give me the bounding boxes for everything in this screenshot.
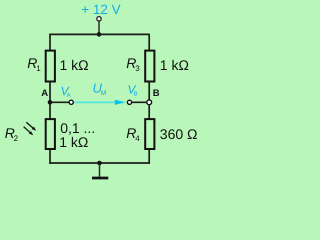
light arrow 2 head [29,131,34,135]
resistor R4 [145,119,154,149]
wire top rail [49,33,150,35]
light arrow 2 line [24,127,31,133]
wire bottom rail [49,162,150,164]
svg-text:UM: UM [93,81,107,97]
junction top node [97,32,102,37]
wire left upper [49,34,51,50]
svg-text:R1: R1 [27,55,41,73]
svg-text:1 kΩ: 1 kΩ [59,134,88,150]
svg-text:R4: R4 [126,125,140,143]
svg-text:A: A [41,88,48,99]
wire left middle [49,81,51,119]
terminal VB [127,100,131,104]
node B ring terminal [147,100,152,105]
light arrow 1 head [32,127,37,131]
svg-text:1 kΩ: 1 kΩ [60,57,89,73]
svg-text:B: B [153,88,160,99]
measurement arrow UM line [75,101,117,103]
wire node B stub [132,101,150,103]
svg-text:VB: VB [128,83,138,98]
ground stem [99,163,101,177]
wire node A stub [50,101,69,103]
light arrow 1 line [26,122,33,128]
resistor R3 [145,51,154,82]
svg-text:360 Ω: 360 Ω [160,126,198,142]
svg-text:1 kΩ: 1 kΩ [160,57,189,73]
node A junction dot [48,100,53,105]
svg-text:+ 12 V: + 12 V [81,2,120,17]
supply terminal [97,17,101,21]
svg-text:R3: R3 [126,55,140,73]
wire right upper [148,34,150,50]
wire right middle [148,81,150,119]
measurement arrow UM head [115,100,126,105]
resistor R1 [46,51,55,82]
wire left lower [49,149,51,164]
terminal VA [69,100,73,104]
junction ground node [97,161,102,166]
ground bar [92,177,108,180]
wire supply stub [98,21,100,34]
svg-text:VA: VA [61,84,71,99]
svg-text:R2: R2 [5,125,19,143]
resistor R2 [46,119,55,149]
wire right lower [148,149,150,164]
